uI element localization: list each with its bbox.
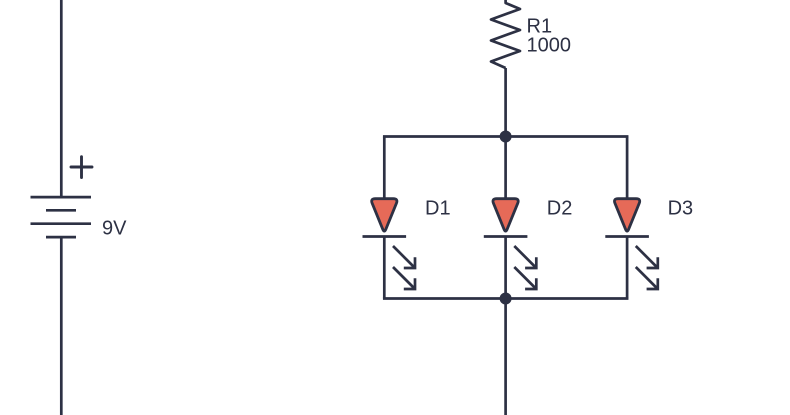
node top junction bbox=[500, 131, 512, 143]
wire battery top lead bbox=[60, 0, 63, 197]
LED D2 bbox=[484, 199, 537, 289]
svg-text:D3: D3 bbox=[668, 197, 694, 219]
LED D3 bbox=[605, 199, 658, 289]
svg-text:D2: D2 bbox=[547, 197, 573, 219]
svg-text:9V: 9V bbox=[102, 218, 127, 240]
svg-text:D1: D1 bbox=[425, 197, 451, 219]
wire D1 anode riser bbox=[383, 137, 386, 201]
resistor R1 bbox=[491, 0, 520, 68]
wire D3 anode riser bbox=[626, 137, 629, 201]
wire resistor bottom lead bbox=[504, 68, 507, 137]
LED D1 bbox=[363, 199, 416, 289]
wire D1 cathode drop bbox=[383, 237, 386, 299]
wire battery bottom lead bbox=[60, 237, 63, 415]
svg-text:1000: 1000 bbox=[527, 35, 572, 57]
wire top bus bbox=[383, 135, 629, 138]
wire bottom return lead bbox=[504, 299, 507, 415]
wire D2 cathode drop bbox=[504, 237, 507, 299]
battery 9V bbox=[31, 197, 92, 237]
wire D3 cathode drop bbox=[626, 237, 629, 299]
node bottom junction bbox=[500, 293, 512, 305]
battery plus polarity marker bbox=[71, 157, 92, 178]
wire D2 anode riser bbox=[504, 137, 507, 201]
wire bottom bus bbox=[383, 297, 629, 300]
